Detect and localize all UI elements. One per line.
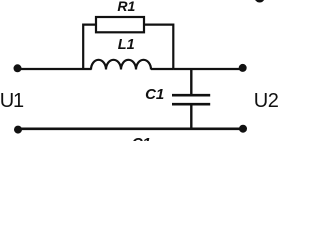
capacitor C1 (172, 95, 210, 104)
inductor L1 (91, 60, 151, 70)
node U2 terminal (top-right dot) (239, 64, 247, 72)
wire top rail right segment (173, 68, 241, 70)
node bottom-right terminal (dot) (239, 125, 247, 133)
svg-text:L1: L1 (118, 37, 135, 53)
wire top rail middle segment (between inductor and right junction) (151, 68, 173, 70)
svg-text:C1: C1 (145, 86, 164, 103)
resistor R1 (96, 17, 144, 32)
wire top rail left segment (19, 68, 92, 70)
node U1 terminal (top-left dot) (14, 64, 22, 72)
wire capacitor bottom stem (190, 105, 192, 130)
svg-text:R1: R1 (117, 0, 135, 14)
svg-text:C1: C1 (132, 135, 151, 141)
wire bottom rail (19, 128, 241, 131)
svg-text:U1: U1 (0, 90, 24, 112)
wire capacitor top stem (190, 68, 192, 95)
svg-text:U2: U2 (254, 90, 279, 112)
clipped glyph fragment at top edge (255, 0, 264, 2)
node bottom-left terminal (dot) (14, 126, 22, 134)
wire left branch riser to resistor (83, 25, 95, 70)
wire right branch riser from resistor (145, 25, 174, 70)
